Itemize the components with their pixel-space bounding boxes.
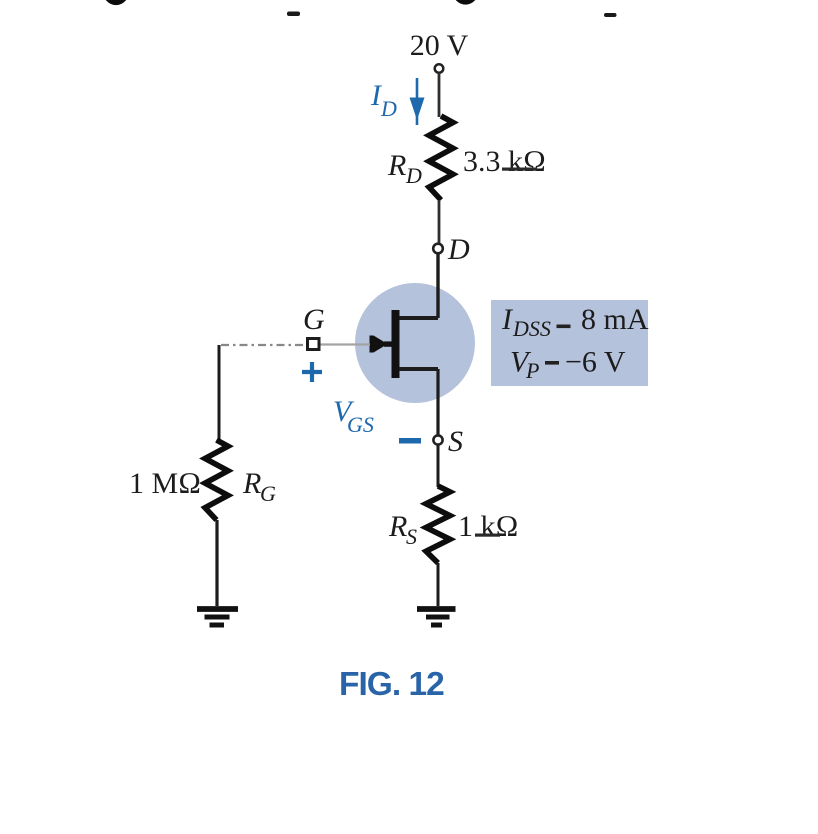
value 3.3 kOhm xyxy=(463,145,546,178)
gate arrow xyxy=(370,336,388,353)
label RS xyxy=(388,510,417,549)
resistor RS xyxy=(426,486,450,563)
label RG xyxy=(242,467,276,506)
transistor Q1 JFET symbol xyxy=(370,310,439,378)
svg-text:8 mA: 8 mA xyxy=(581,303,649,336)
wire supply to RD xyxy=(438,73,441,117)
gate wire dash-dot xyxy=(221,344,306,346)
node D xyxy=(433,244,443,254)
svg-text:−6 V: −6 V xyxy=(565,346,626,379)
svg-text:D: D xyxy=(405,163,422,188)
ground left xyxy=(197,609,238,625)
cropped text fragment hyphen left xyxy=(287,12,300,17)
svg-text:G: G xyxy=(303,303,325,336)
svg-text:S: S xyxy=(406,524,417,549)
gate terminal G xyxy=(308,339,320,350)
channel bar xyxy=(392,310,400,378)
ground right xyxy=(417,609,456,625)
cropped text fragment g-bowl left xyxy=(106,0,126,3)
gate wire gray xyxy=(319,343,370,345)
wire RD to node D xyxy=(438,200,441,244)
supply terminal xyxy=(435,64,444,73)
cropped text fragment hyphen right xyxy=(604,13,617,17)
svg-text:P: P xyxy=(525,358,539,383)
wire node S to RS xyxy=(437,445,440,487)
source lead xyxy=(399,367,438,371)
svg-text:20 V: 20 V xyxy=(410,29,469,62)
wire gate corner down to RG xyxy=(218,345,221,441)
plus sign xyxy=(302,362,322,382)
label ID xyxy=(370,79,397,121)
resistor RG xyxy=(205,440,228,520)
svg-text:R: R xyxy=(388,510,407,543)
wire source lead to node S xyxy=(436,369,439,436)
svg-text:G: G xyxy=(260,481,276,506)
svg-text:FIG. 12: FIG. 12 xyxy=(339,666,444,703)
svg-text:GS: GS xyxy=(347,412,374,437)
resistor RD xyxy=(429,116,453,200)
JFET highlight circle xyxy=(355,283,475,403)
node S xyxy=(433,435,442,444)
cropped text fragment g-bowl right xyxy=(456,0,476,2)
label VGS xyxy=(333,395,374,437)
info box IDSS VP xyxy=(491,300,649,386)
svg-text:3.3 kΩ: 3.3 kΩ xyxy=(463,145,546,178)
label RD xyxy=(387,149,422,188)
svg-text:R: R xyxy=(242,467,261,500)
svg-text:S: S xyxy=(448,425,463,458)
svg-text:1 MΩ: 1 MΩ xyxy=(129,467,201,500)
minus sign xyxy=(399,438,421,444)
svg-text:D: D xyxy=(447,233,470,266)
wire RS to ground xyxy=(437,563,440,606)
current arrow ID xyxy=(410,78,425,125)
wire node D to drain lead xyxy=(436,254,439,319)
svg-text:R: R xyxy=(387,149,406,182)
value 1 kOhm xyxy=(458,510,519,543)
svg-text:1 kΩ: 1 kΩ xyxy=(458,510,519,543)
svg-text:DSS: DSS xyxy=(512,316,551,341)
wire RG to ground xyxy=(215,520,218,606)
svg-text:D: D xyxy=(380,96,397,121)
drain lead xyxy=(399,316,438,320)
